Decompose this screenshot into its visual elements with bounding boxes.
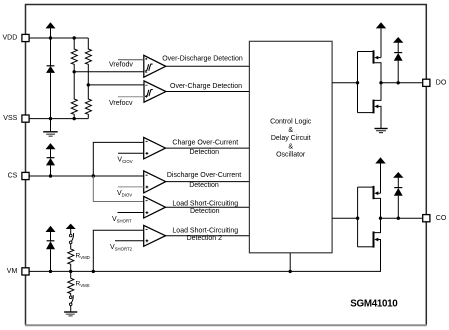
wire CS bus down to U5 — [93, 176, 143, 202]
pin VSS — [3, 115, 29, 122]
op-amp U6 load short-circuiting 2 — [115, 225, 166, 246]
pin VDD — [3, 34, 30, 41]
node VDD/arrow junction — [49, 36, 52, 39]
wire CS rail — [29, 175, 144, 177]
node DO gate junction — [356, 81, 359, 84]
wire U4 output — [166, 181, 250, 183]
diode D1 (VSS to VDD) — [46, 38, 55, 119]
schmitt glyph — [145, 64, 153, 71]
resistor R-d lower right — [85, 85, 91, 119]
node CS/diode junction — [49, 174, 52, 177]
wire CO gate bus — [357, 187, 359, 247]
node Q3/Q4 drain junction — [379, 217, 382, 220]
svg-text:SGM41010: SGM41010 — [350, 298, 398, 309]
node Q1/Q2 drain junction — [379, 81, 382, 84]
pin DO — [423, 79, 447, 86]
wire VDD rail — [29, 37, 88, 39]
wire U1 output — [166, 65, 250, 67]
op-amp U3 charge over-current — [118, 137, 166, 159]
node VSS/ground junction — [49, 117, 52, 120]
wire logic block to VM rail — [289, 253, 291, 272]
resistor RVMS + switch SW2 + ground G2 — [64, 271, 77, 316]
svg-text:DO: DO — [436, 79, 447, 86]
transistor Q2 NMOS — [358, 83, 382, 128]
node CO diode junction — [397, 217, 400, 220]
node VM/diode junction — [49, 270, 52, 273]
op-amp U1 over-discharge — [118, 55, 166, 77]
svg-text:Oscillator: Oscillator — [276, 152, 306, 159]
svg-text:Control Logic: Control Logic — [270, 119, 312, 126]
node CS/comparator bus junction — [92, 174, 95, 177]
svg-text:VSHORT: VSHORT — [112, 216, 132, 223]
switch SW1 + resistor RVMD branch — [66, 224, 76, 272]
wire logic to CO gates — [332, 217, 358, 219]
node VM/short2 bus junction — [92, 270, 95, 273]
svg-text:Load Short-Circuiting: Load Short-Circuiting — [172, 201, 238, 208]
svg-text:VM: VM — [7, 268, 18, 275]
svg-text:Discharge Over-Current: Discharge Over-Current — [167, 172, 241, 179]
node VSS/divider junction — [73, 117, 76, 120]
wire VSS rail — [29, 118, 88, 120]
wire VM bus up to U6 — [93, 230, 143, 271]
svg-text:RVMS: RVMS — [76, 281, 90, 289]
node divider tap ocv — [87, 83, 90, 86]
wire CS bus up to U3 — [93, 142, 143, 176]
node DO diode junction — [397, 81, 400, 84]
ESD arrow above PMOS Q1 — [376, 22, 386, 57]
resistor divider left leg: resistor R-a — [71, 38, 77, 72]
svg-text:Detection: Detection — [189, 182, 219, 189]
svg-text:Detection 2: Detection 2 — [187, 235, 223, 242]
ground symbol G1 — [43, 119, 58, 137]
wire U5 output — [166, 206, 250, 208]
wire logic to DO gates — [332, 82, 357, 84]
ESD arrow + diode D3 above VM — [46, 226, 56, 272]
node VDD/divider junction — [73, 36, 76, 39]
wire tap to comparator U1 — [74, 71, 144, 73]
ground G3 under Q2 — [375, 129, 388, 133]
svg-text:CO: CO — [436, 215, 447, 222]
wire VM rail — [29, 270, 381, 272]
svg-text:&: & — [288, 127, 293, 134]
ESD arrow + diode D2 between VSS and CS — [46, 143, 56, 176]
node divider tap odv — [73, 70, 76, 73]
op-amp U2 over-charge — [118, 81, 166, 102]
transistor Q3 PMOS — [358, 186, 381, 218]
wire DO gate bus — [357, 52, 359, 113]
transistor Q1 PMOS — [358, 50, 382, 83]
wire U2 output — [166, 91, 250, 93]
wire U3 output — [166, 147, 250, 149]
svg-text:Vrefocv: Vrefocv — [109, 100, 133, 107]
svg-text:VSHORT2: VSHORT2 — [110, 244, 133, 251]
svg-text:Over-Charge Detection: Over-Charge Detection — [170, 83, 242, 90]
schmitt glyph — [145, 90, 153, 97]
resistor R-b lower left — [71, 72, 77, 119]
resistor divider right leg: resistor R-c — [85, 38, 91, 85]
node VM/RVMD junction — [69, 270, 72, 273]
svg-text:&: & — [288, 143, 293, 150]
svg-text:VSS: VSS — [3, 115, 17, 122]
ESD arrow + diode D4 at DO — [393, 37, 403, 83]
svg-text:VCIOV: VCIOV — [117, 157, 132, 164]
wire CO output — [381, 217, 423, 219]
wire DO output — [381, 82, 423, 84]
svg-text:Charge Over-Current: Charge Over-Current — [172, 140, 238, 147]
ESD arrow above VDD rail — [46, 22, 56, 38]
ESD arrow + diode D5 at CO — [393, 172, 403, 218]
svg-text:Detection: Detection — [190, 208, 220, 215]
wire U6 output — [166, 235, 250, 237]
svg-text:VDD: VDD — [3, 35, 18, 42]
svg-text:Load Short-Circuiting: Load Short-Circuiting — [172, 227, 238, 234]
op-amp U4 discharge over-current — [118, 171, 166, 193]
node CO gate junction — [356, 217, 359, 220]
svg-text:Detection: Detection — [190, 149, 220, 156]
transistor Q4 NMOS — [358, 218, 381, 271]
op-amp U5 load short-circuiting — [118, 196, 166, 218]
pin VM — [7, 268, 29, 275]
svg-text:RVMD: RVMD — [76, 253, 90, 261]
pin CO — [423, 215, 447, 222]
svg-text:Vrefodv: Vrefodv — [109, 62, 133, 69]
svg-text:Over-Discharge Detection: Over-Discharge Detection — [162, 56, 243, 63]
node VM/logic junction — [289, 270, 292, 273]
wire tap to comparator U2 — [88, 84, 144, 86]
svg-text:CS: CS — [8, 172, 18, 179]
svg-text:VDIOV: VDIOV — [117, 190, 132, 197]
pin CS — [8, 172, 30, 179]
ESD arrow above PMOS Q3 — [375, 157, 385, 193]
svg-text:Delay Circuit: Delay Circuit — [271, 135, 311, 142]
